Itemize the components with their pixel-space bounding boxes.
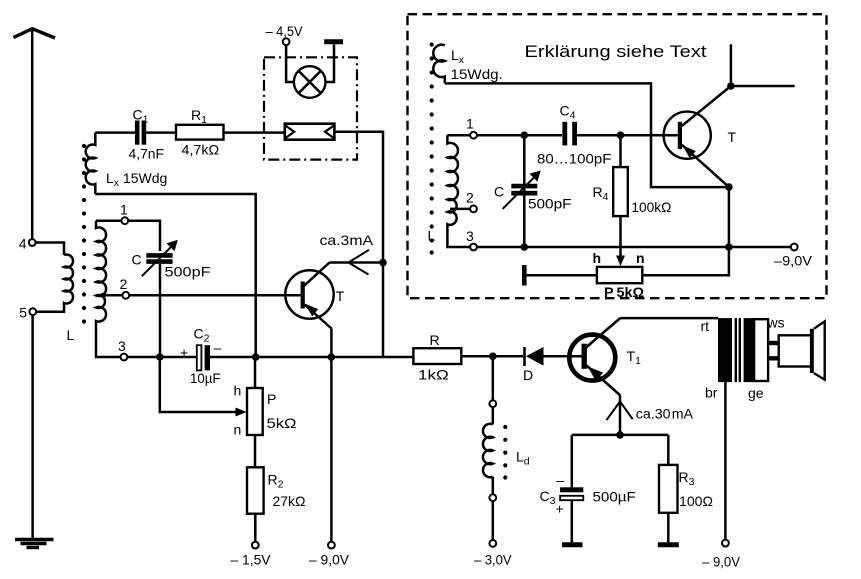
transformer core lines bbox=[736, 318, 740, 382]
junction C4/R4/base (inset) bbox=[617, 131, 625, 139]
label Lx (inset) bbox=[451, 47, 465, 66]
svg-text:4,7nF: 4,7nF bbox=[129, 146, 165, 162]
svg-text:D: D bbox=[523, 367, 533, 383]
label Lx 15Wdg bbox=[106, 170, 167, 189]
wiper arrowhead (inset) bbox=[616, 256, 625, 267]
svg-text:ca.30 mA: ca.30 mA bbox=[636, 406, 694, 422]
speaker connection stubs bbox=[768, 343, 779, 358]
earphone jack symbol bbox=[285, 124, 335, 140]
svg-text:4,7kΩ: 4,7kΩ bbox=[182, 142, 220, 158]
wire Lx to emitter node (inset) bbox=[445, 83, 726, 187]
svg-text:3: 3 bbox=[118, 338, 126, 354]
wire lamp to battery bar bbox=[326, 45, 335, 83]
wire tap2 to node 2 bbox=[103, 294, 122, 297]
wire to R3 bbox=[667, 435, 670, 465]
coil L (inset) bbox=[447, 135, 470, 247]
rail 3 (inset) bbox=[477, 246, 791, 249]
wire rail3 junction to potentiometer wiper bbox=[160, 357, 241, 412]
svg-text:C: C bbox=[132, 252, 142, 268]
wire node2 to transistor T base bbox=[129, 294, 300, 297]
current arrow ca.3mA bbox=[348, 250, 369, 275]
variable capacitor C bbox=[142, 240, 178, 276]
speaker bbox=[779, 321, 825, 379]
svg-text:500pF: 500pF bbox=[165, 264, 211, 280]
svg-text:– 4,5V: – 4,5V bbox=[266, 23, 304, 39]
coil Lx (inset) bbox=[433, 45, 445, 84]
wire jack to collector drop bbox=[334, 132, 383, 357]
svg-text:2: 2 bbox=[120, 276, 128, 292]
svg-text:ge: ge bbox=[748, 385, 764, 401]
wire rail 3 (left of C2) bbox=[127, 356, 197, 359]
label R3 bbox=[679, 469, 695, 488]
svg-text:n: n bbox=[234, 422, 242, 438]
wire C arm (inset) bbox=[523, 135, 526, 247]
wire R4 top (inset) bbox=[619, 135, 622, 167]
Ld top terminal bbox=[489, 400, 496, 407]
node 1 terminal bbox=[121, 217, 128, 224]
svg-text:– 1,5V: – 1,5V bbox=[231, 552, 272, 568]
wire C4 to base node (inset) bbox=[577, 134, 678, 137]
diode D bbox=[525, 347, 544, 366]
svg-text:T: T bbox=[336, 288, 345, 304]
svg-text:2: 2 bbox=[466, 190, 474, 206]
wire rail 3 (right of C2) bbox=[210, 356, 413, 359]
label 15Wdg. (inset) bbox=[451, 66, 503, 82]
wire R2 to -1,5V terminal bbox=[254, 514, 257, 542]
-9,0V terminal (inset) bbox=[791, 244, 798, 251]
lamp bbox=[294, 66, 326, 98]
svg-text:–: – bbox=[214, 340, 222, 356]
node 3 terminal bbox=[121, 354, 128, 361]
coil between taps 4 and 5 bbox=[36, 255, 73, 312]
junction rail3 / emitter line bbox=[328, 353, 336, 361]
dashed inset frame bbox=[408, 14, 827, 298]
antenna bbox=[14, 29, 56, 240]
coupling core dots (main coil) bbox=[82, 144, 86, 324]
wire junction to Ld bbox=[492, 356, 495, 400]
label R4 (inset) bbox=[593, 184, 609, 203]
wire T1 collector to transformer bbox=[620, 317, 718, 320]
wire to coil Ld bbox=[492, 407, 495, 424]
label T1 bbox=[627, 348, 642, 367]
node 2 terminal bbox=[122, 292, 129, 299]
junction rail3 / Lx drop bbox=[252, 353, 260, 361]
label C4 (inset) bbox=[560, 103, 576, 122]
svg-text:15Wdg.: 15Wdg. bbox=[451, 66, 503, 82]
transformer secondary winding bbox=[744, 318, 755, 382]
svg-text:h: h bbox=[234, 383, 242, 399]
wire Ld coil to bottom terminal bbox=[492, 477, 495, 495]
node 2 terminal (inset) bbox=[470, 206, 477, 213]
wire C to rail 3 bbox=[159, 264, 162, 357]
coupling core dots (inset) bbox=[430, 42, 434, 254]
wire node5 to ground bbox=[31, 315, 34, 538]
-9,0V terminal (main) bbox=[328, 542, 335, 549]
wire to -3,0V bbox=[492, 501, 495, 540]
chassis bar terminal (inset) bbox=[522, 265, 527, 285]
coil Lx (feedback winding) bbox=[86, 133, 96, 194]
junction R/Ld/diode bbox=[489, 353, 497, 361]
coil L (tuning coil with taps) bbox=[96, 221, 121, 357]
wire P left lead (inset) bbox=[526, 274, 597, 277]
wire T collector to drop bbox=[330, 261, 384, 264]
svg-text:3: 3 bbox=[466, 228, 474, 244]
svg-text:5kΩ: 5kΩ bbox=[267, 415, 297, 431]
node 3 terminal (inset) bbox=[470, 244, 477, 251]
svg-text:Erklärung siehe Text: Erklärung siehe Text bbox=[525, 43, 707, 61]
svg-text:P 5kΩ: P 5kΩ bbox=[604, 284, 644, 300]
transformer primary winding bbox=[718, 318, 732, 382]
wire node4 to coil4-5 bbox=[36, 243, 64, 256]
wire collector stub up (inset) bbox=[730, 44, 733, 86]
resistor R3 bbox=[659, 465, 678, 513]
chassis bar C3 bbox=[562, 542, 583, 547]
coil Ld bbox=[483, 424, 493, 478]
svg-text:4: 4 bbox=[19, 236, 27, 252]
wire br lead to -9,0V bbox=[724, 382, 727, 540]
ground bbox=[15, 540, 54, 548]
junction rail3/emitter branch (inset) bbox=[725, 243, 733, 251]
svg-text:1: 1 bbox=[120, 202, 128, 218]
transistor T1 bbox=[569, 318, 620, 395]
value 4,7kΩ bbox=[182, 142, 220, 158]
wire R3 to chassis bbox=[667, 513, 670, 543]
wire tap1 (inset) bbox=[447, 134, 470, 137]
wire P to R2 bbox=[254, 435, 257, 467]
value 4,7nF bbox=[129, 146, 165, 162]
label R2 bbox=[268, 472, 284, 491]
svg-text:L: L bbox=[428, 228, 436, 244]
svg-text:1kΩ: 1kΩ bbox=[418, 367, 449, 383]
wire diode to T1 base bbox=[544, 355, 582, 358]
label C3 bbox=[540, 488, 556, 507]
dash-dot enclosure (earphone unit) bbox=[264, 57, 357, 159]
wire -4,5V to lamp bbox=[286, 45, 294, 82]
chassis bar R3 bbox=[658, 542, 679, 547]
-3,0V terminal bbox=[489, 540, 496, 547]
node 4 terminal bbox=[29, 239, 36, 246]
svg-text:n: n bbox=[636, 250, 645, 266]
battery terminal bar bbox=[324, 39, 343, 44]
label -4,5V bbox=[266, 23, 304, 39]
tap 2 arrow on coil bbox=[97, 292, 106, 299]
current arrow ca.30mA bbox=[607, 402, 633, 421]
-9,0V terminal (right) bbox=[722, 540, 729, 547]
wire C1 to R1 bbox=[146, 131, 176, 134]
potentiometer P 5kΩ (inset) bbox=[597, 267, 642, 283]
collector tee node (inset) bbox=[727, 82, 735, 90]
wire T emitter down to -9,0V bbox=[330, 329, 333, 542]
node 1 terminal (inset) bbox=[470, 132, 477, 139]
junction at C arm / rail3 bbox=[156, 353, 164, 361]
resistor R bbox=[413, 348, 461, 364]
svg-text:5: 5 bbox=[19, 305, 27, 321]
svg-text:80…100pF: 80…100pF bbox=[537, 151, 611, 167]
svg-text:–: – bbox=[557, 472, 565, 488]
label C2 bbox=[194, 326, 210, 345]
svg-text:T: T bbox=[728, 129, 737, 145]
tap 1 wire bbox=[96, 219, 121, 222]
transistor T (inset) bbox=[664, 86, 731, 187]
svg-text:500pF: 500pF bbox=[528, 196, 572, 212]
junction C/rail3 (inset) bbox=[521, 243, 529, 251]
wire T1 emitter down bbox=[619, 395, 622, 435]
capacitor C4 (inset) bbox=[565, 122, 575, 146]
svg-text:27kΩ: 27kΩ bbox=[273, 493, 306, 509]
-1,5V terminal bbox=[252, 542, 259, 549]
svg-text:ca.3mA: ca.3mA bbox=[320, 232, 374, 248]
svg-text:R: R bbox=[430, 332, 440, 348]
svg-text:–9,0V: –9,0V bbox=[774, 253, 813, 269]
svg-text:100kΩ: 100kΩ bbox=[631, 199, 671, 215]
Ld bottom terminal bbox=[489, 494, 496, 501]
wire node1 to C4 (inset) bbox=[477, 134, 562, 137]
potentiometer P bbox=[247, 388, 263, 435]
wire R to diode junction bbox=[461, 355, 523, 358]
svg-text:h: h bbox=[593, 250, 602, 266]
wire rail3 to P top bbox=[254, 357, 257, 388]
svg-text:10µF: 10µF bbox=[190, 370, 221, 386]
wire tap2 stub (inset) bbox=[450, 208, 470, 211]
svg-text:– 9,0V: – 9,0V bbox=[702, 554, 741, 570]
wiper arrowhead into P bbox=[236, 408, 247, 417]
svg-text:C: C bbox=[494, 184, 504, 200]
junction collector/drop bbox=[379, 259, 387, 267]
transistor T bbox=[285, 263, 333, 329]
wire P right lead (inset) bbox=[642, 247, 729, 275]
junction emitter node (inset) bbox=[725, 183, 733, 191]
variable capacitor C (inset) bbox=[503, 171, 541, 209]
resistor R1 bbox=[176, 125, 224, 140]
wire R4 to wiper arrow (inset) bbox=[619, 216, 622, 262]
svg-text:– 9,0V: – 9,0V bbox=[309, 552, 350, 568]
wire Lx bottom to rail 3 bbox=[95, 194, 255, 357]
core dots Ld bbox=[503, 425, 507, 480]
label Ld bbox=[516, 449, 530, 468]
label R1 bbox=[191, 107, 207, 126]
junction emitter/C3/R3 bbox=[616, 431, 624, 439]
capacitor C3 (electrolytic) bbox=[560, 435, 583, 543]
resistor R2 bbox=[247, 467, 264, 513]
-4,5V terminal bbox=[283, 38, 290, 45]
svg-text:br: br bbox=[705, 385, 718, 401]
svg-text:500µF: 500µF bbox=[593, 489, 636, 505]
svg-text:P: P bbox=[267, 391, 276, 407]
svg-text:+: + bbox=[180, 345, 188, 361]
capacitor C2 (electrolytic) bbox=[197, 345, 210, 370]
svg-text:rt: rt bbox=[701, 318, 710, 334]
svg-text:ws: ws bbox=[767, 315, 785, 331]
transformer secondary frame bbox=[754, 319, 768, 381]
svg-text:100Ω: 100Ω bbox=[679, 493, 713, 509]
node 5 terminal bbox=[29, 308, 36, 315]
wire R1 to earphone jack bbox=[224, 131, 285, 134]
wire emitter to rail3 (inset) bbox=[728, 187, 731, 247]
svg-text:1: 1 bbox=[466, 116, 474, 132]
wire collector stub right (inset) bbox=[731, 85, 795, 88]
label Erklärung siehe Text bbox=[525, 43, 707, 61]
svg-text:+: + bbox=[556, 501, 564, 517]
label C1 bbox=[133, 107, 149, 126]
wire node1 to variable capacitor C bbox=[128, 221, 160, 251]
capacitor C1 bbox=[137, 121, 144, 145]
junction C/tap1 (inset) bbox=[521, 131, 529, 139]
wire emitter rail bbox=[572, 434, 669, 437]
svg-text:– 3,0V: – 3,0V bbox=[474, 552, 512, 568]
wire Lx top to C1 bbox=[95, 131, 135, 134]
resistor R4 (inset) bbox=[613, 167, 628, 216]
svg-text:L: L bbox=[67, 327, 75, 343]
